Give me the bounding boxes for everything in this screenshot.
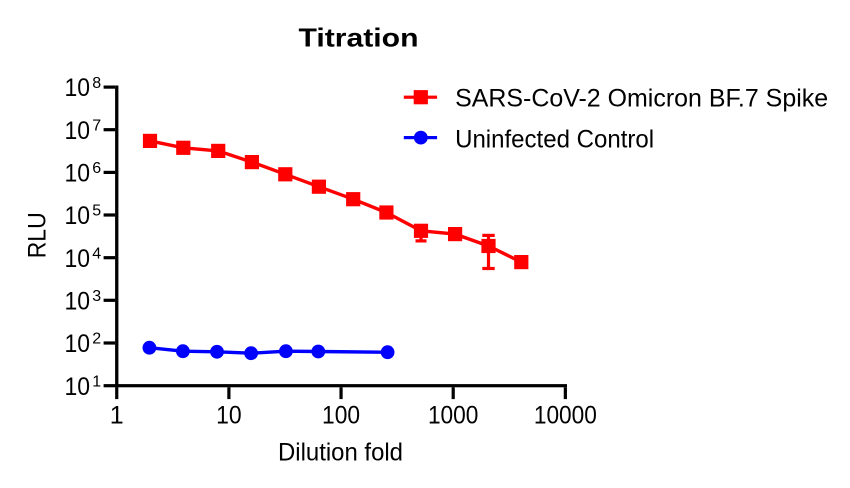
blue series line Uninfected Control <box>149 348 387 354</box>
svg-text:Dilution fold: Dilution fold <box>278 439 403 467</box>
svg-text:10: 10 <box>65 74 91 102</box>
y label 10^8 <box>65 74 102 102</box>
svg-text:4: 4 <box>92 245 101 262</box>
blue marker x=8 <box>210 345 224 359</box>
svg-text:8: 8 <box>92 75 101 92</box>
svg-text:10000: 10000 <box>534 402 597 430</box>
svg-text:7: 7 <box>92 117 101 134</box>
red marker x=512 <box>414 224 428 238</box>
svg-text:1: 1 <box>110 402 124 430</box>
y label 10^4 <box>65 245 102 273</box>
y tick 10^7 <box>104 128 116 131</box>
svg-text:10: 10 <box>65 202 91 230</box>
blue marker x=256 <box>381 345 395 359</box>
red marker x=1024 <box>448 227 462 241</box>
legend red square marker <box>414 90 428 104</box>
blue marker x=64 <box>311 345 325 359</box>
svg-text:1: 1 <box>92 373 101 390</box>
svg-text:10: 10 <box>65 245 91 273</box>
svg-text:1000: 1000 <box>428 402 479 430</box>
svg-text:10: 10 <box>65 330 91 358</box>
x tick 1 <box>115 387 118 399</box>
red marker x=128 <box>346 192 360 206</box>
y label 10^6 <box>65 160 102 188</box>
svg-text:10: 10 <box>65 117 91 145</box>
y tick 10^8 <box>104 86 116 89</box>
red marker x=4 <box>176 141 190 155</box>
y label 10^2 <box>65 330 102 358</box>
svg-text:Titration: Titration <box>299 23 419 53</box>
y-axis line <box>115 86 118 388</box>
svg-text:10: 10 <box>65 373 91 401</box>
red series line SARS-CoV-2 Omicron BF.7 Spike <box>150 141 521 262</box>
x tick 100 <box>339 387 342 399</box>
blue marker x=4 <box>176 344 190 358</box>
legend blue line <box>404 136 437 139</box>
blue marker x=32 <box>279 344 293 358</box>
red marker x=64 <box>312 180 326 194</box>
svg-text:6: 6 <box>92 160 101 177</box>
svg-text:2: 2 <box>92 331 101 348</box>
y tick 10^1 <box>104 384 116 387</box>
svg-text:SARS-CoV-2 Omicron BF.7 Spike: SARS-CoV-2 Omicron BF.7 Spike <box>455 85 828 113</box>
y tick 10^4 <box>104 256 116 259</box>
legend red line <box>404 96 437 99</box>
svg-text:3: 3 <box>92 288 101 305</box>
blue marker x=2 <box>143 341 157 355</box>
svg-text:Uninfected Control: Uninfected Control <box>455 125 654 153</box>
x-axis line <box>115 384 567 387</box>
svg-text:10: 10 <box>65 288 91 316</box>
svg-text:10: 10 <box>65 160 91 188</box>
svg-text:100: 100 <box>322 402 360 430</box>
red marker x=8 <box>211 144 225 158</box>
y tick 10^6 <box>104 171 116 174</box>
red series error bar at x=2048 <box>482 235 494 268</box>
blue marker x=16 <box>244 346 258 360</box>
red marker x=16 <box>245 155 259 169</box>
y label 10^3 <box>65 288 102 316</box>
red marker x=4096 <box>514 255 528 269</box>
red marker x=32 <box>278 167 292 181</box>
red series error bar at x=512 <box>416 231 427 241</box>
x tick 1000 <box>452 387 455 399</box>
y tick 10^3 <box>104 299 116 302</box>
y label 10^7 <box>65 117 102 145</box>
red marker x=2048 <box>481 239 495 253</box>
red marker x=256 <box>379 205 393 219</box>
x tick 10 <box>227 387 230 399</box>
legend blue circle marker <box>414 131 428 145</box>
svg-text:RLU: RLU <box>23 212 51 258</box>
svg-text:5: 5 <box>92 203 101 220</box>
y tick 10^5 <box>104 213 116 216</box>
x tick 10000 <box>564 387 567 399</box>
y label 10^5 <box>65 202 102 230</box>
red marker x=2 <box>143 134 157 148</box>
svg-text:10: 10 <box>216 402 242 430</box>
y label 10^1 <box>65 373 102 401</box>
y tick 10^2 <box>104 341 116 344</box>
